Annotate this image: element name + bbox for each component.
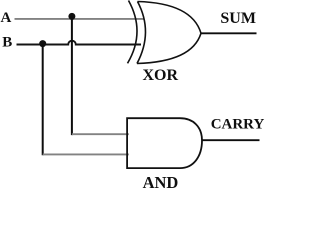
AND gate U2 body: [127, 118, 202, 168]
wire CARRY output: [202, 139, 260, 141]
junction dot on A: [68, 13, 75, 20]
wire horizontal B branch to AND lower input: [43, 153, 129, 155]
wire B horizontal to XOR input with hop over A branch: [17, 41, 142, 45]
svg-text:XOR: XOR: [143, 67, 179, 84]
wire SUM output: [201, 32, 257, 34]
svg-text:CARRY: CARRY: [211, 116, 265, 132]
svg-text:B: B: [2, 35, 12, 51]
junction dot on B: [39, 40, 46, 47]
svg-text:A: A: [1, 10, 12, 26]
wire vertical from A junction: [71, 16, 73, 135]
wire horizontal A branch to AND upper input: [72, 133, 129, 135]
XOR gate U1 body: [137, 2, 201, 64]
svg-text:AND: AND: [143, 173, 179, 190]
wire vertical from B junction: [42, 45, 44, 156]
svg-text:SUM: SUM: [220, 10, 256, 27]
wire A horizontal to XOR input: [15, 18, 144, 20]
XOR gate U1 input arc: [128, 1, 138, 64]
